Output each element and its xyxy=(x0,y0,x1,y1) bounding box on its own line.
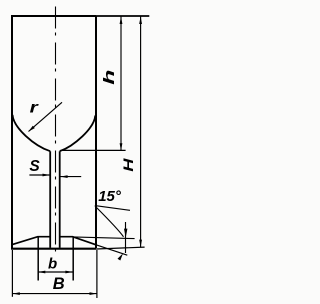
svg-text:h: h xyxy=(101,70,118,85)
svg-text:H: H xyxy=(121,158,136,172)
svg-text:15°: 15° xyxy=(98,188,122,205)
svg-text:S: S xyxy=(29,158,40,175)
svg-text:B: B xyxy=(53,275,65,293)
svg-text:b: b xyxy=(48,255,57,272)
